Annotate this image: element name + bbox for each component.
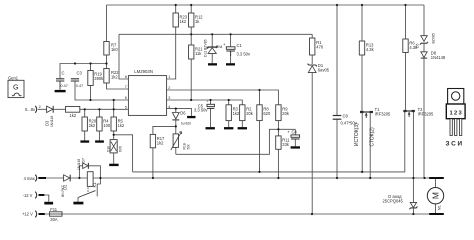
wire D6 node to R17: [153, 126, 176, 134]
wire pin8 drop: [119, 34, 128, 79]
wire relay D7 bypass loop: [79, 166, 100, 178]
svg-text:20k: 20k: [246, 111, 254, 116]
svg-text:0.47: 0.47: [76, 84, 83, 88]
resistor R11: [276, 136, 281, 149]
wire D12 column: [211, 34, 213, 63]
svg-text:50k: 50k: [186, 144, 190, 150]
svg-text:4: 4: [168, 105, 170, 109]
resistor R18 preset arrow: [171, 132, 182, 150]
junction dots node 63.5: [74, 62, 76, 64]
svg-text:4 max: 4 max: [24, 176, 35, 181]
svg-text:8: 8: [125, 75, 127, 79]
svg-text:+12 V: +12 V: [22, 212, 33, 217]
junction dots top rail: [175, 4, 177, 6]
wire T1 drain leg: [369, 113, 371, 178]
wire D5 D8 column: [423, 5, 425, 178]
capacitor C8: [333, 115, 342, 117]
wire R5 D10 column: [113, 100, 115, 164]
svg-text:1N4148: 1N4148: [50, 116, 54, 127]
zener D5: [421, 36, 427, 42]
junction dots bottom bus: [311, 213, 313, 215]
svg-text:IRF3205: IRF3205: [375, 112, 391, 117]
diode D10 cross: [111, 142, 117, 151]
junction dots pin3 line: [209, 99, 211, 101]
ground minus12: [44, 202, 53, 205]
transistor package TO220 body: [446, 104, 465, 119]
svg-text:100: 100: [103, 123, 111, 128]
transistor package TO220 tab: [448, 89, 464, 105]
svg-text:+: +: [206, 100, 208, 104]
wire R3 column: [228, 100, 230, 127]
ground under C: [55, 90, 66, 92]
resistor R3: [226, 105, 231, 121]
fuse F11: [50, 212, 63, 216]
generator Gen1 pulse symbol: [12, 93, 22, 96]
svg-text:C8: C8: [343, 113, 349, 118]
diode D2: [64, 175, 70, 181]
svg-text:2: 2: [39, 105, 41, 109]
svg-text:0.47: 0.47: [61, 84, 68, 88]
svg-text:C3: C3: [77, 71, 83, 76]
svg-text:M1: M1: [437, 205, 441, 210]
svg-text:K1: K1: [92, 182, 97, 188]
svg-text:M: M: [431, 192, 441, 199]
wire pin2 line: [167, 90, 279, 105]
svg-text:D7: D7: [82, 158, 86, 162]
connector arc 4max: [35, 175, 37, 182]
svg-text:1uv610: 1uv610: [181, 122, 192, 126]
resistor R17: [150, 134, 155, 147]
diode D3: [47, 106, 53, 112]
wire relay contact branch: [97, 178, 100, 196]
resistor R21: [189, 45, 194, 59]
svg-text:F11: F11: [50, 207, 57, 212]
svg-text:1k: 1k: [195, 19, 200, 24]
svg-text:3.3 50v: 3.3 50v: [237, 52, 251, 57]
wire R17 bottom: [152, 148, 154, 178]
wire R11 column: [277, 129, 279, 178]
svg-text:C1: C1: [237, 43, 243, 48]
wire R21 column: [190, 34, 192, 100]
transistor T1 arrow: [365, 113, 367, 118]
wire R8 column: [259, 90, 261, 172]
svg-text:470: 470: [316, 45, 324, 50]
zener D12: [207, 46, 218, 49]
wire T2 drain column to schottky: [412, 112, 414, 214]
diode D8: [421, 52, 427, 58]
svg-text:30A: 30A: [50, 217, 58, 222]
resistor R2: [240, 105, 245, 121]
relay K1 armature dashes: [87, 188, 89, 195]
resistor R4: [97, 117, 102, 131]
wire motor top lead: [435, 178, 437, 188]
ground relay contact: [73, 202, 83, 205]
wire R4 column: [98, 109, 100, 140]
svg-text:+: +: [223, 42, 226, 47]
junction dots pin2 line: [190, 99, 192, 101]
wire R2 column: [241, 121, 243, 128]
connector arc minus12: [35, 192, 37, 199]
svg-text:123: 123: [450, 111, 464, 117]
ground under D12: [208, 63, 217, 65]
wire R12 column: [190, 5, 192, 34]
connector stub 4max: [39, 177, 47, 179]
ground pin4: [187, 116, 195, 118]
capacitor C5: [207, 104, 214, 106]
svg-text:11k: 11k: [195, 51, 202, 56]
resistor R9: [276, 105, 281, 121]
resistor R12: [189, 13, 194, 27]
svg-text:33k: 33k: [282, 142, 290, 147]
svg-text:1k2: 1k2: [233, 111, 240, 116]
svg-text:D6: D6: [180, 111, 186, 116]
resistor R8: [257, 105, 262, 121]
capacitor C: [56, 79, 64, 81]
svg-text:D12 BZV85: D12 BZV85: [203, 39, 207, 57]
fuse F11 internal wire: [50, 213, 63, 215]
ground under C5: [206, 127, 215, 129]
resistor R16 horizontal: [66, 107, 80, 113]
svg-text:1k0: 1k0: [111, 47, 118, 52]
svg-text:D10: D10: [106, 146, 110, 152]
svg-text:20k: 20k: [282, 111, 290, 116]
svg-text:LM2903N: LM2903N: [134, 69, 153, 74]
svg-text:BH-PKC: BH-PKC: [61, 184, 65, 197]
zener D1: [308, 66, 316, 73]
wire T1 source leg: [361, 113, 363, 172]
svg-text:4.3k: 4.3k: [366, 47, 375, 52]
junction dots second rail: [190, 33, 192, 35]
wire R13 column gate T1: [361, 5, 363, 111]
wire R18 column: [175, 126, 177, 154]
svg-text:6V8: 6V8: [119, 146, 123, 152]
resistor R5: [111, 117, 116, 131]
svg-text:-12 V: -12 V: [23, 193, 33, 198]
wire C4 column: [294, 129, 296, 146]
wire node line y63.5: [60, 64, 107, 79]
wire D10 jumper to source bus: [114, 135, 133, 172]
svg-text:C4: C4: [292, 129, 298, 134]
wire minus12 to ground: [44, 195, 49, 202]
svg-text:C: C: [62, 71, 65, 76]
relay K1 coil: [87, 172, 93, 187]
resistor R1: [310, 38, 315, 55]
wire pin7 link: [107, 83, 129, 89]
connector stub motor plus: [429, 177, 444, 179]
junction dots source bus: [258, 171, 260, 173]
junction dot D6 node: [175, 125, 177, 127]
svg-text:+: +: [287, 130, 290, 135]
transistor T1 channel bar: [360, 111, 373, 113]
wire D6 branch: [175, 109, 177, 127]
svg-text:D5: D5: [415, 44, 419, 48]
resistor R7: [104, 42, 109, 56]
wire pin1 to R23: [167, 5, 176, 79]
svg-text:25CPQ045: 25CPQ045: [383, 199, 404, 204]
capacitor C1: [226, 47, 235, 50]
svg-text:BZV85: BZV85: [431, 33, 435, 43]
wire R9 bottom: [277, 121, 279, 130]
connector stub minus12: [39, 194, 45, 196]
svg-text:1k2: 1k2: [157, 140, 164, 145]
transistor package TO220 hole: [452, 92, 460, 100]
wire C5 column: [210, 100, 212, 127]
connector arc plus12: [35, 211, 37, 218]
wire C1 column: [230, 34, 232, 63]
wire R20 column: [84, 109, 86, 140]
svg-text:1k2: 1k2: [111, 74, 118, 79]
junction dot R9 node: [277, 128, 279, 130]
svg-text:D3: D3: [45, 120, 50, 126]
resistor R6: [403, 39, 408, 53]
junction dot pin4 line: [175, 108, 177, 110]
wire source bus: [133, 112, 405, 172]
ground under R4: [95, 140, 104, 142]
wire R7 column: [106, 5, 108, 69]
wire R19 column: [90, 64, 92, 101]
wire drain bus: [38, 177, 432, 179]
svg-text:3: 3: [168, 96, 170, 100]
svg-text:1N4: 1N4: [217, 45, 223, 49]
svg-text:2k2: 2k2: [89, 123, 96, 128]
resistor R22: [104, 69, 109, 84]
svg-text:5: 5: [125, 106, 127, 110]
wire second rail: [119, 33, 312, 35]
connector stub plus12: [39, 213, 45, 215]
svg-text:1: 1: [168, 75, 170, 79]
wire pin6 line: [75, 81, 128, 100]
connector stub motor minus: [429, 213, 444, 215]
relay K1 switch blade: [78, 191, 96, 198]
svg-text:G: G: [13, 82, 19, 91]
wire motor bottom lead: [435, 204, 437, 214]
svg-text:СТОК(2): СТОК(2): [370, 127, 376, 147]
svg-text:Gen1: Gen1: [8, 75, 19, 80]
ground under R3: [224, 127, 233, 129]
svg-text:3.3 50v: 3.3 50v: [194, 108, 208, 113]
svg-text:IRF3205: IRF3205: [418, 112, 434, 117]
transistor T2 arrow: [408, 112, 410, 117]
diode D7: [83, 163, 88, 169]
motor M1 circle: [427, 188, 443, 204]
wire top rail: [107, 4, 425, 6]
generator Gen1 box: [8, 80, 24, 97]
capacitor C4: [291, 135, 300, 137]
resistor R20: [82, 117, 87, 131]
wire pin4 line: [167, 109, 192, 116]
transistor package TO220 leg 3: [460, 119, 462, 136]
svg-text:6: 6: [125, 96, 127, 100]
resistor R23: [173, 13, 178, 27]
ground under C4: [291, 146, 300, 148]
wire bottom plus12 bus: [45, 213, 436, 215]
diode D6: [172, 113, 179, 120]
wire C8 column: [336, 5, 338, 178]
wire relay contact to ground: [77, 198, 79, 202]
capacitor C3: [71, 79, 79, 81]
connector arc input 0-8v: [35, 106, 37, 113]
wire input pin5 line: [38, 108, 129, 110]
junction dots input line: [84, 108, 86, 110]
svg-text:2: 2: [168, 86, 170, 90]
wire R18 to R9 node jumper: [176, 129, 295, 154]
svg-text:0...8v: 0...8v: [25, 107, 36, 112]
transistor package TO220 leg 1: [450, 119, 452, 136]
resistor R19: [88, 71, 93, 86]
transistor package TO220 leg 2: [455, 119, 457, 136]
op-amp U1 LM2903N body: [128, 76, 166, 116]
svg-text:ЗСИ: ЗСИ: [446, 140, 464, 147]
junction dot D10 node: [113, 134, 115, 136]
wire pin3 line: [167, 100, 243, 105]
ground under R2: [238, 127, 247, 129]
ground under C1: [226, 63, 235, 65]
transistor T2 channel bar: [403, 110, 414, 112]
ground under D10: [109, 164, 118, 166]
junction dots drain bus: [78, 177, 80, 179]
svg-text:1N4148: 1N4148: [77, 159, 81, 170]
resistor R18 preset body: [173, 134, 178, 148]
svg-text:620: 620: [263, 111, 271, 116]
diode D10 box: [110, 140, 117, 153]
svg-text:1k2: 1k2: [180, 19, 187, 24]
svg-text:1N4148: 1N4148: [431, 55, 446, 60]
wire R6 column gate T2: [405, 5, 407, 110]
svg-text:1k2: 1k2: [70, 113, 77, 118]
svg-text:6av05: 6av05: [318, 67, 330, 72]
junction dots pin6 line: [89, 99, 91, 101]
svg-text:1k2: 1k2: [118, 123, 125, 128]
resistor R13: [359, 41, 364, 55]
svg-text:7: 7: [125, 85, 127, 89]
schottky diode 25CPQ045: [410, 202, 416, 207]
ground under R20: [80, 140, 89, 142]
svg-text:ИСТОК(3): ИСТОК(3): [354, 123, 360, 146]
wire R1 D1 column: [311, 34, 313, 214]
svg-text:390k: 390k: [94, 76, 104, 81]
